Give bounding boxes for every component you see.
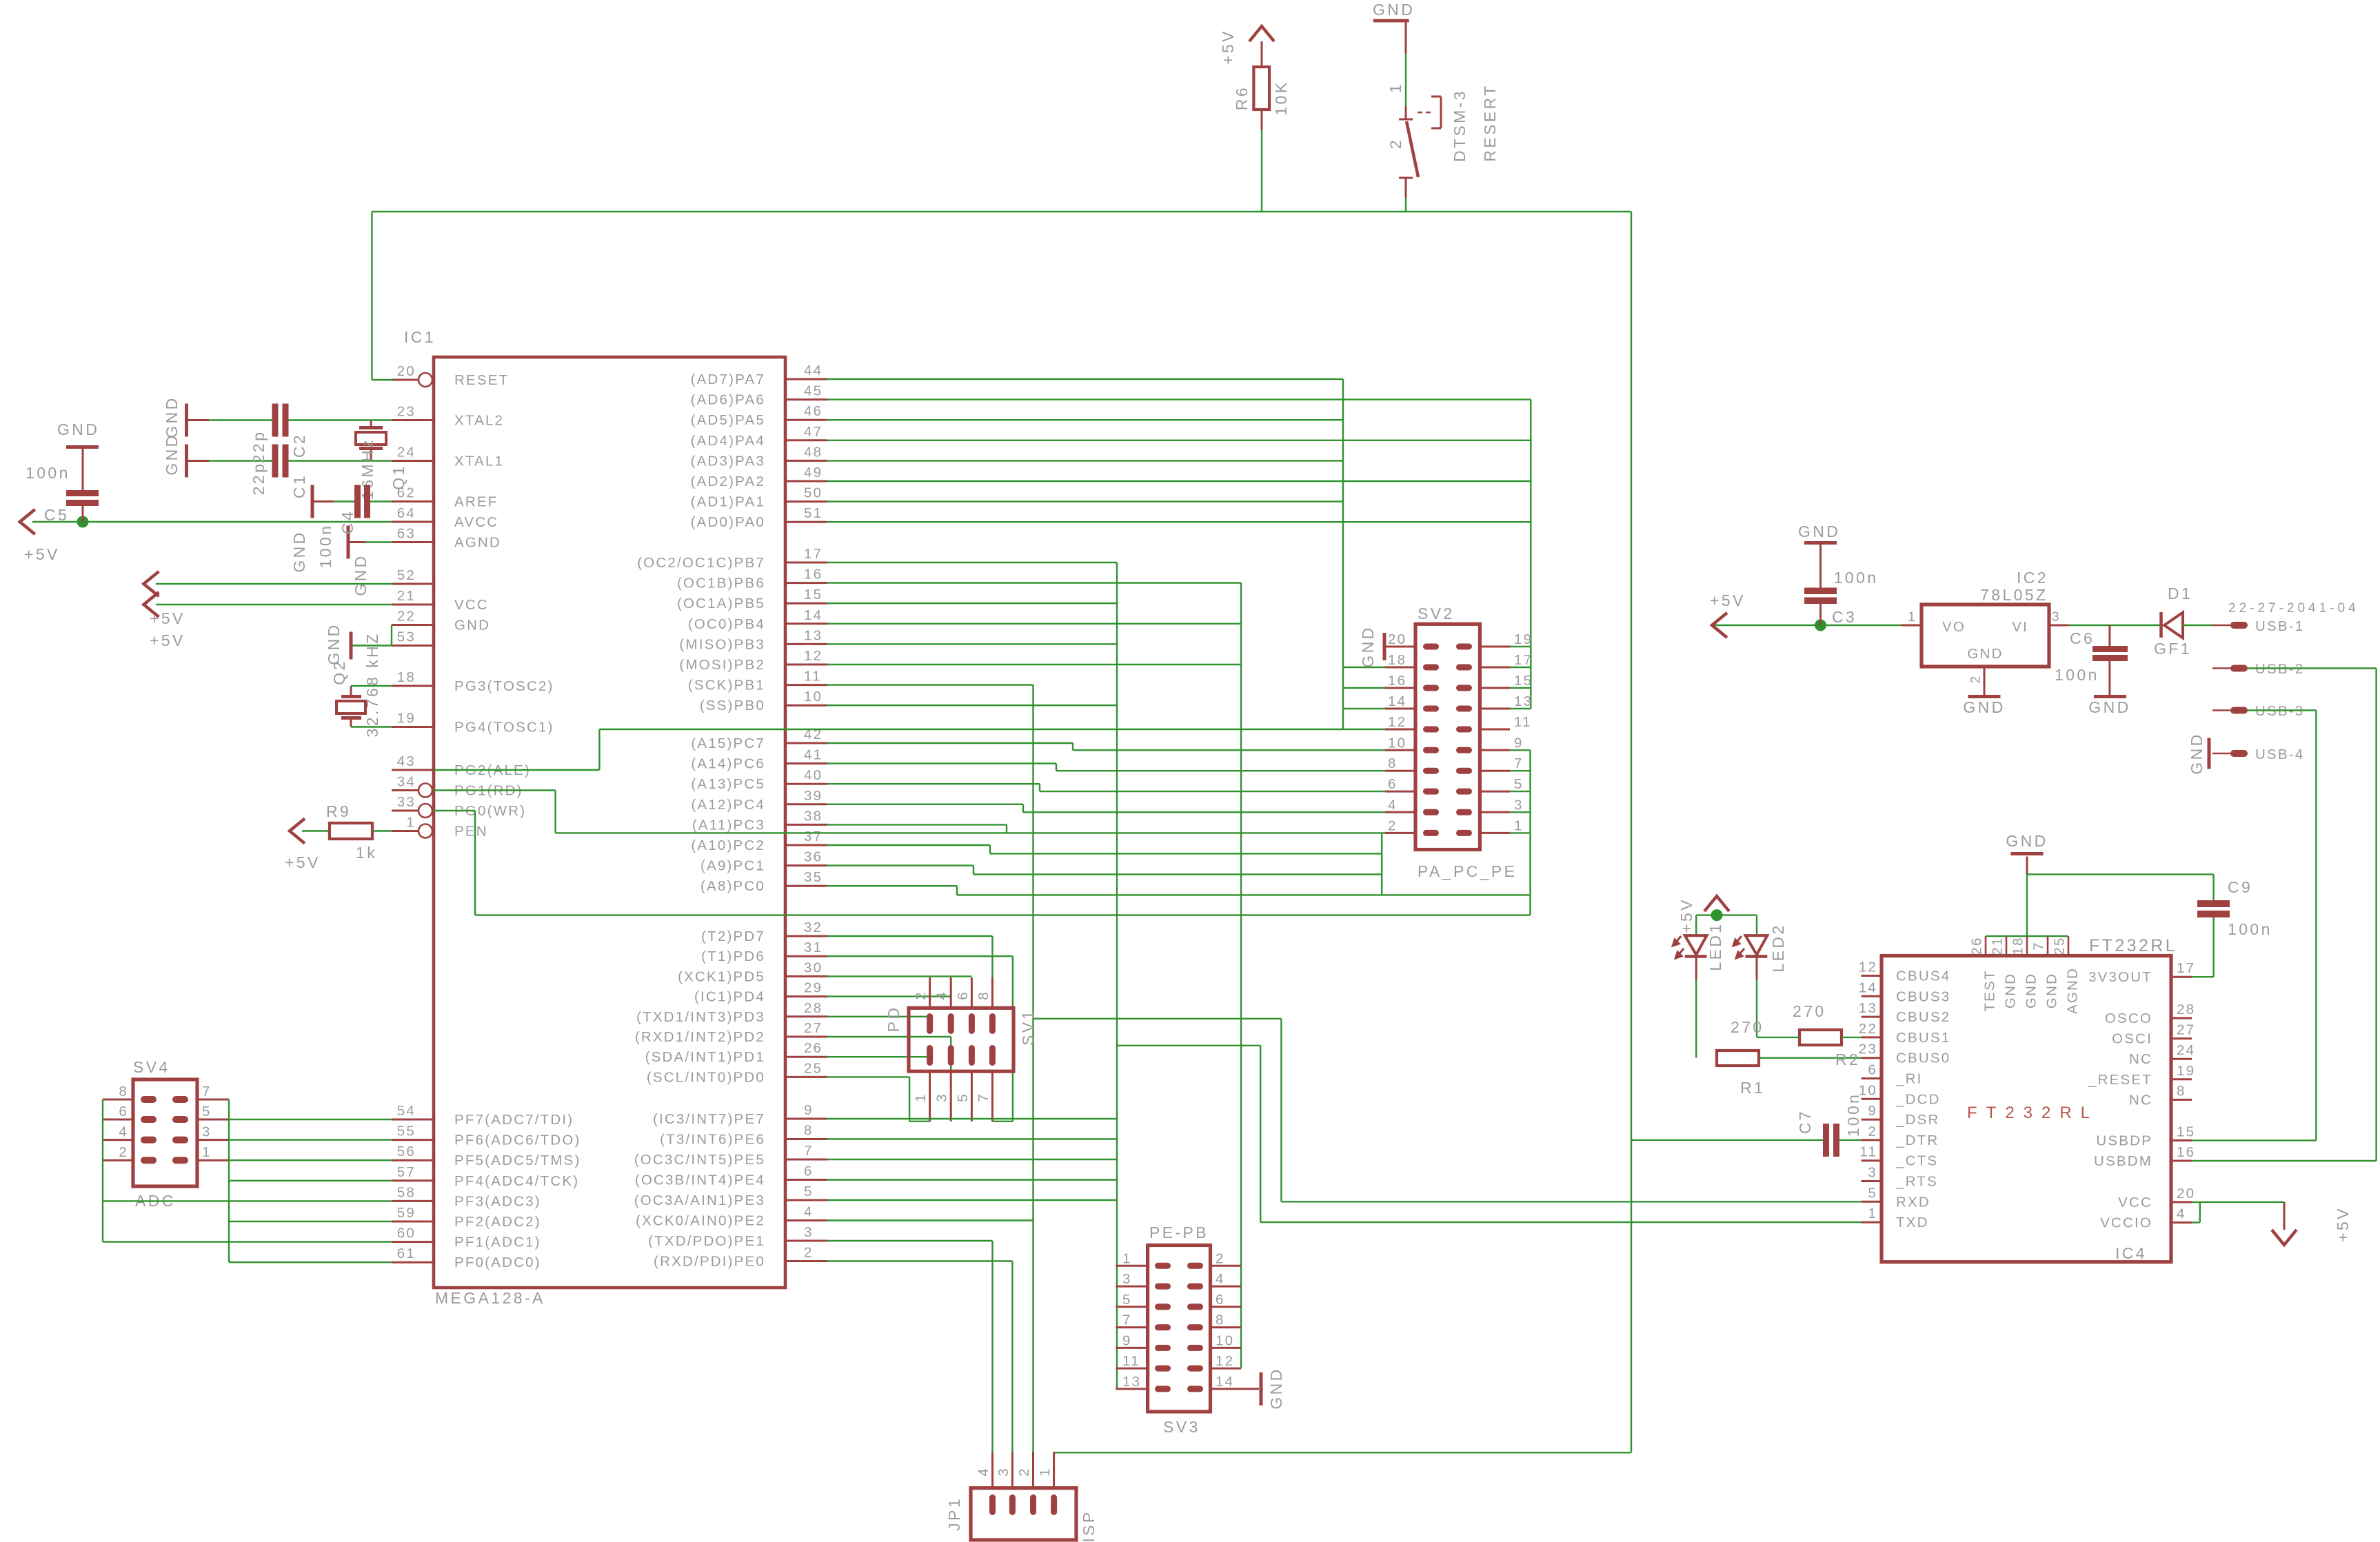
svg-text:(SDA/INT1)PD1: (SDA/INT1)PD1 <box>645 1049 765 1065</box>
svg-text:29: 29 <box>804 980 823 996</box>
svg-text:10K: 10K <box>1272 80 1290 115</box>
svg-text:IC2: IC2 <box>2017 569 2048 587</box>
svg-text:SV2: SV2 <box>1418 605 1455 622</box>
svg-text:R2: R2 <box>1835 1051 1860 1068</box>
svg-text:13: 13 <box>804 627 823 643</box>
svg-text:24: 24 <box>397 445 416 460</box>
svg-text:100n: 100n <box>316 524 334 569</box>
svg-text:4: 4 <box>804 1204 814 1220</box>
svg-text:(RXD/PDI)PE0: (RXD/PDI)PE0 <box>654 1254 765 1270</box>
svg-text:13: 13 <box>1514 693 1533 709</box>
svg-text:(AD4)PA4: (AD4)PA4 <box>691 433 765 449</box>
svg-text:USB-4: USB-4 <box>2255 747 2304 762</box>
svg-text:(TXD1/INT3)PD3: (TXD1/INT3)PD3 <box>636 1009 765 1025</box>
svg-text:(OC2/OC1C)PB7: (OC2/OC1C)PB7 <box>637 555 765 571</box>
svg-text:IC1: IC1 <box>404 328 436 346</box>
svg-text:AGND: AGND <box>454 535 501 551</box>
svg-text:59: 59 <box>397 1205 416 1221</box>
svg-text:GND: GND <box>2024 973 2039 1008</box>
svg-text:NC: NC <box>2129 1051 2152 1067</box>
svg-text:+5V: +5V <box>1710 591 1746 609</box>
svg-text:22p: 22p <box>250 430 268 464</box>
svg-text:GND: GND <box>1359 625 1377 667</box>
svg-text:2: 2 <box>1216 1250 1225 1266</box>
svg-text:SV3: SV3 <box>1163 1418 1200 1436</box>
svg-text:5: 5 <box>202 1104 212 1119</box>
svg-text:22-27-2041-04: 22-27-2041-04 <box>2228 601 2359 616</box>
svg-text:C5: C5 <box>44 506 69 524</box>
svg-text:35: 35 <box>804 869 823 885</box>
svg-text:PA_PC_PE: PA_PC_PE <box>1418 862 1517 880</box>
svg-text:JP1: JP1 <box>945 1497 963 1531</box>
svg-text:12: 12 <box>1859 960 1877 975</box>
svg-text:GND: GND <box>163 396 181 438</box>
svg-text:C4: C4 <box>339 509 356 534</box>
svg-text:3: 3 <box>996 1467 1011 1477</box>
svg-text:6: 6 <box>119 1104 128 1119</box>
svg-text:3: 3 <box>1514 797 1524 813</box>
svg-text:4: 4 <box>934 991 950 1000</box>
svg-text:(SCL/INT0)PD0: (SCL/INT0)PD0 <box>647 1069 765 1085</box>
svg-text:26: 26 <box>1969 936 1985 955</box>
svg-text:15: 15 <box>1514 673 1533 689</box>
svg-text:PD: PD <box>885 1006 902 1033</box>
svg-text:USBDM: USBDM <box>2094 1153 2152 1169</box>
svg-text:100n: 100n <box>2228 920 2272 938</box>
svg-text:VCC: VCC <box>454 597 489 613</box>
svg-text:8: 8 <box>804 1123 814 1139</box>
svg-text:1: 1 <box>1514 818 1524 833</box>
svg-text:5: 5 <box>955 1093 971 1102</box>
svg-text:PF4(ADC4/TCK): PF4(ADC4/TCK) <box>454 1173 579 1189</box>
svg-text:GF1: GF1 <box>2154 640 2192 658</box>
svg-text:52: 52 <box>397 567 416 583</box>
svg-text:GND: GND <box>454 618 490 633</box>
svg-text:41: 41 <box>804 747 823 763</box>
svg-text:_DSR: _DSR <box>1895 1112 1939 1128</box>
svg-text:CBUS4: CBUS4 <box>1896 968 1950 984</box>
svg-text:CBUS2: CBUS2 <box>1896 1009 1950 1025</box>
svg-text:ISP: ISP <box>1080 1510 1098 1542</box>
svg-text:1: 1 <box>1386 82 1404 93</box>
svg-text:18: 18 <box>1388 652 1406 668</box>
svg-text:RESERT: RESERT <box>1481 83 1499 161</box>
svg-text:TXD: TXD <box>1896 1215 1929 1230</box>
svg-text:C6: C6 <box>2070 629 2095 647</box>
svg-text:28: 28 <box>2177 1002 2195 1017</box>
svg-text:(A9)PC1: (A9)PC1 <box>700 858 765 874</box>
svg-text:(TXD/PDO)PE1: (TXD/PDO)PE1 <box>648 1233 765 1249</box>
svg-text:VCC: VCC <box>2118 1195 2152 1210</box>
svg-text:5: 5 <box>1122 1292 1132 1308</box>
svg-text:(OC3B/INT4)PE4: (OC3B/INT4)PE4 <box>635 1173 765 1188</box>
svg-text:C2: C2 <box>290 433 308 458</box>
svg-text:7: 7 <box>976 1093 991 1102</box>
svg-text:9: 9 <box>1514 735 1524 751</box>
svg-text:25: 25 <box>804 1060 823 1076</box>
svg-text:53: 53 <box>397 629 416 645</box>
svg-text:C9: C9 <box>2228 878 2252 896</box>
svg-text:Q2: Q2 <box>330 659 348 684</box>
svg-text:CBUS0: CBUS0 <box>1896 1051 1950 1066</box>
svg-text:2: 2 <box>1969 675 1984 684</box>
svg-text:(XCK1)PD5: (XCK1)PD5 <box>678 968 765 984</box>
svg-text:20: 20 <box>2177 1186 2195 1201</box>
svg-text:1: 1 <box>406 815 416 831</box>
svg-text:(A15)PC7: (A15)PC7 <box>691 736 765 751</box>
svg-text:RESET: RESET <box>454 372 509 388</box>
svg-text:61: 61 <box>397 1246 416 1261</box>
svg-text:1: 1 <box>1908 610 1917 625</box>
svg-text:4: 4 <box>976 1467 991 1477</box>
svg-text:GND: GND <box>2003 973 2019 1008</box>
svg-text:(OC1B)PB6: (OC1B)PB6 <box>677 576 765 591</box>
svg-text:1: 1 <box>1037 1467 1053 1477</box>
svg-text:33: 33 <box>397 794 416 810</box>
svg-text:16: 16 <box>804 567 823 582</box>
svg-text:PF6(ADC6/TDO): PF6(ADC6/TDO) <box>454 1133 581 1148</box>
svg-text:10: 10 <box>804 689 823 704</box>
svg-text:VO: VO <box>1942 619 1966 635</box>
svg-text:60: 60 <box>397 1226 416 1241</box>
svg-text:14: 14 <box>804 607 823 623</box>
svg-text:28: 28 <box>804 1000 823 1016</box>
svg-text:GND: GND <box>2044 973 2060 1008</box>
svg-text:8: 8 <box>1216 1312 1225 1328</box>
svg-text:8: 8 <box>976 991 991 1000</box>
svg-text:GND: GND <box>2088 698 2130 716</box>
svg-text:PG4(TOSC1): PG4(TOSC1) <box>454 720 554 736</box>
svg-text:Q1: Q1 <box>390 464 407 489</box>
svg-text:27: 27 <box>2177 1022 2195 1038</box>
svg-text:10: 10 <box>1388 735 1406 751</box>
svg-text:21: 21 <box>397 588 416 604</box>
svg-text:5: 5 <box>1514 776 1524 792</box>
svg-text:12: 12 <box>1388 714 1406 730</box>
svg-text:+5V: +5V <box>1219 29 1237 65</box>
svg-text:16: 16 <box>1388 673 1406 689</box>
svg-text:19: 19 <box>2177 1063 2195 1079</box>
svg-text:PF2(ADC2): PF2(ADC2) <box>454 1214 541 1230</box>
svg-text:(AD2)PA2: (AD2)PA2 <box>691 474 765 489</box>
svg-text:55: 55 <box>397 1124 416 1139</box>
svg-text:11: 11 <box>1514 714 1532 730</box>
svg-text:GND: GND <box>325 622 343 665</box>
svg-text:GND: GND <box>2006 832 2048 850</box>
svg-text:PF7(ADC7/TDI): PF7(ADC7/TDI) <box>454 1112 574 1128</box>
svg-text:GND: GND <box>1963 698 2005 716</box>
svg-text:_CTS: _CTS <box>1895 1153 1938 1169</box>
svg-text:6: 6 <box>955 991 971 1000</box>
svg-text:PF5(ADC5/TMS): PF5(ADC5/TMS) <box>454 1153 581 1168</box>
svg-text:GND: GND <box>1967 646 2003 662</box>
svg-text:PF1(ADC1): PF1(ADC1) <box>454 1235 541 1250</box>
svg-text:(OC3C/INT5)PE5: (OC3C/INT5)PE5 <box>634 1152 765 1168</box>
svg-text:57: 57 <box>397 1164 416 1180</box>
svg-text:2: 2 <box>1386 138 1404 149</box>
svg-text:6: 6 <box>1388 776 1398 792</box>
svg-text:2: 2 <box>913 991 929 1000</box>
svg-text:1k: 1k <box>356 844 377 862</box>
svg-text:+5V: +5V <box>1677 897 1695 933</box>
svg-text:FT232RL: FT232RL <box>2089 936 2177 955</box>
svg-text:+5V: +5V <box>150 609 185 627</box>
svg-text:12: 12 <box>1216 1353 1234 1369</box>
svg-text:NC: NC <box>2129 1092 2152 1108</box>
svg-text:SV1: SV1 <box>1019 1008 1037 1046</box>
svg-text:(AD7)PA7: (AD7)PA7 <box>691 372 765 387</box>
svg-text:18: 18 <box>397 669 416 685</box>
svg-text:2: 2 <box>1388 818 1398 833</box>
svg-text:15: 15 <box>804 587 823 602</box>
svg-text:56: 56 <box>397 1144 416 1159</box>
svg-text:13: 13 <box>1859 1000 1877 1016</box>
svg-text:LED2: LED2 <box>1769 923 1787 972</box>
svg-text:_RESET: _RESET <box>2088 1072 2152 1088</box>
svg-text:2: 2 <box>1868 1124 1877 1139</box>
svg-text:(AD0)PA0: (AD0)PA0 <box>691 514 765 530</box>
svg-text:1: 1 <box>913 1093 929 1102</box>
svg-text:7: 7 <box>1122 1312 1132 1328</box>
svg-text:C1: C1 <box>290 474 308 498</box>
svg-text:C3: C3 <box>1832 608 1857 626</box>
svg-text:16: 16 <box>2177 1144 2195 1160</box>
svg-text:FT232RL: FT232RL <box>1967 1104 2099 1122</box>
svg-text:7: 7 <box>2031 941 2047 951</box>
svg-text:(T3/INT6)PE6: (T3/INT6)PE6 <box>660 1132 765 1148</box>
svg-text:D1: D1 <box>2168 585 2192 602</box>
svg-text:(OC1A)PB5: (OC1A)PB5 <box>677 596 765 611</box>
svg-text:19: 19 <box>397 711 416 727</box>
svg-text:2: 2 <box>1016 1467 1032 1477</box>
svg-text:3V3OUT: 3V3OUT <box>2088 969 2152 985</box>
svg-text:(A11)PC3: (A11)PC3 <box>692 817 765 833</box>
svg-text:PF0(ADC0): PF0(ADC0) <box>454 1255 541 1270</box>
svg-text:(AD5)PA5: (AD5)PA5 <box>691 412 765 428</box>
svg-text:(AD1)PA1: (AD1)PA1 <box>691 494 765 510</box>
svg-text:4: 4 <box>2177 1206 2186 1222</box>
svg-text:6: 6 <box>1868 1062 1877 1078</box>
svg-text:21: 21 <box>1990 936 2006 955</box>
svg-text:RXD: RXD <box>1896 1194 1930 1210</box>
svg-text:12: 12 <box>804 648 823 664</box>
svg-text:+5V: +5V <box>24 545 60 563</box>
svg-text:OSCI: OSCI <box>2112 1031 2152 1047</box>
svg-text:+5V: +5V <box>2334 1206 2352 1242</box>
svg-text:20: 20 <box>397 363 416 379</box>
svg-text:PF3(ADC3): PF3(ADC3) <box>454 1193 541 1209</box>
svg-text:63: 63 <box>397 526 416 542</box>
svg-text:GND: GND <box>352 554 370 596</box>
svg-text:17: 17 <box>1514 652 1533 668</box>
svg-text:6: 6 <box>1216 1292 1225 1308</box>
svg-text:(SS)PB0: (SS)PB0 <box>700 698 765 713</box>
svg-text:45: 45 <box>804 383 823 399</box>
svg-text:23: 23 <box>397 404 416 420</box>
svg-text:(IC1)PD4: (IC1)PD4 <box>694 989 765 1005</box>
svg-text:32.768 kHZ: 32.768 kHZ <box>363 632 381 738</box>
svg-text:8: 8 <box>2177 1083 2186 1099</box>
svg-text:14: 14 <box>1388 693 1406 709</box>
svg-text:3: 3 <box>2052 610 2061 625</box>
svg-text:_RI: _RI <box>1895 1071 1923 1087</box>
svg-text:1: 1 <box>1868 1206 1877 1221</box>
svg-text:22p: 22p <box>250 462 268 496</box>
svg-text:4: 4 <box>1388 797 1398 813</box>
svg-text:(T1)PD6: (T1)PD6 <box>701 948 765 964</box>
svg-text:31: 31 <box>804 940 823 955</box>
svg-text:PG3(TOSC2): PG3(TOSC2) <box>454 678 554 694</box>
svg-text:TEST: TEST <box>1982 969 1998 1011</box>
svg-text:19: 19 <box>1514 631 1533 647</box>
svg-text:27: 27 <box>804 1020 823 1036</box>
svg-text:3: 3 <box>804 1224 814 1240</box>
svg-text:3: 3 <box>202 1124 212 1140</box>
svg-text:(A12)PC4: (A12)PC4 <box>691 797 765 813</box>
svg-text:26: 26 <box>804 1040 823 1056</box>
svg-text:9: 9 <box>1122 1332 1132 1348</box>
svg-text:13: 13 <box>1122 1374 1141 1390</box>
svg-text:270: 270 <box>1731 1018 1764 1036</box>
svg-text:100n: 100n <box>1834 569 1879 587</box>
svg-text:9: 9 <box>804 1102 814 1118</box>
svg-text:7: 7 <box>202 1084 212 1099</box>
svg-text:4: 4 <box>1216 1271 1225 1287</box>
svg-text:15: 15 <box>2177 1124 2195 1139</box>
svg-text:(OC0)PB4: (OC0)PB4 <box>688 616 765 632</box>
svg-text:GND: GND <box>1798 523 1840 540</box>
svg-text:18: 18 <box>2010 936 2026 955</box>
svg-text:GND: GND <box>2188 732 2206 774</box>
svg-text:37: 37 <box>804 829 823 844</box>
svg-text:3: 3 <box>1868 1165 1877 1181</box>
svg-text:R9: R9 <box>326 802 351 820</box>
svg-text:25: 25 <box>2052 936 2068 955</box>
svg-text:46: 46 <box>804 403 823 419</box>
svg-text:(SCK)PB1: (SCK)PB1 <box>688 678 765 693</box>
svg-text:43: 43 <box>397 753 416 769</box>
svg-text:20: 20 <box>1388 631 1406 647</box>
svg-text:AGND: AGND <box>2065 967 2081 1014</box>
svg-text:48: 48 <box>804 444 823 460</box>
svg-text:58: 58 <box>397 1184 416 1200</box>
svg-text:(A13)PC5: (A13)PC5 <box>691 776 765 792</box>
svg-text:14: 14 <box>1216 1374 1234 1390</box>
svg-text:10: 10 <box>1859 1082 1877 1098</box>
svg-text:2: 2 <box>119 1144 128 1160</box>
svg-text:R6: R6 <box>1233 85 1251 110</box>
svg-text:22: 22 <box>397 609 416 625</box>
svg-text:(A8)PC0: (A8)PC0 <box>700 878 765 894</box>
svg-text:11: 11 <box>1859 1144 1877 1160</box>
svg-text:5: 5 <box>804 1184 814 1199</box>
svg-text:(MISO)PB3: (MISO)PB3 <box>679 636 765 652</box>
svg-text:_DCD: _DCD <box>1895 1091 1941 1107</box>
svg-text:7: 7 <box>1514 755 1524 771</box>
svg-text:GND: GND <box>1373 1 1415 19</box>
svg-text:+5V: +5V <box>150 631 185 649</box>
svg-text:GND: GND <box>163 433 181 475</box>
svg-text:39: 39 <box>804 788 823 804</box>
svg-text:4: 4 <box>119 1124 128 1140</box>
svg-text:11: 11 <box>1122 1353 1140 1369</box>
svg-text:GND: GND <box>290 530 308 572</box>
svg-text:30: 30 <box>804 960 823 975</box>
svg-text:GND: GND <box>57 420 99 438</box>
svg-text:50: 50 <box>804 485 823 501</box>
svg-text:11: 11 <box>804 669 822 684</box>
svg-text:DTSM-3: DTSM-3 <box>1451 89 1469 162</box>
svg-text:XTAL2: XTAL2 <box>454 413 504 429</box>
svg-text:(A14)PC6: (A14)PC6 <box>691 756 765 772</box>
svg-text:6: 6 <box>804 1164 814 1179</box>
svg-text:22: 22 <box>1859 1021 1877 1037</box>
svg-text:PEN: PEN <box>454 824 488 840</box>
svg-text:MEGA128-A: MEGA128-A <box>435 1289 545 1307</box>
svg-text:44: 44 <box>804 363 823 378</box>
svg-text:CBUS3: CBUS3 <box>1896 988 1950 1004</box>
svg-text:36: 36 <box>804 849 823 865</box>
svg-text:VCCIO: VCCIO <box>2100 1215 2152 1231</box>
svg-text:OSCO: OSCO <box>2105 1011 2152 1026</box>
svg-text:CBUS1: CBUS1 <box>1896 1030 1950 1046</box>
svg-text:(RXD1/INT2)PD2: (RXD1/INT2)PD2 <box>635 1029 765 1045</box>
svg-text:GND: GND <box>1267 1367 1285 1409</box>
svg-text:100n: 100n <box>2055 666 2099 684</box>
svg-text:USB-1: USB-1 <box>2255 618 2304 634</box>
svg-text:47: 47 <box>804 424 823 440</box>
svg-text:R1: R1 <box>1740 1079 1765 1097</box>
svg-text:3: 3 <box>934 1093 950 1102</box>
svg-text:32: 32 <box>804 920 823 935</box>
svg-text:(A10)PC2: (A10)PC2 <box>691 838 765 853</box>
svg-text:270: 270 <box>1793 1002 1826 1020</box>
svg-text:USBDP: USBDP <box>2096 1133 2152 1148</box>
svg-text:7: 7 <box>804 1143 814 1159</box>
svg-text:14: 14 <box>1859 980 1877 995</box>
svg-text:XTAL1: XTAL1 <box>454 454 504 469</box>
svg-text:8: 8 <box>119 1084 128 1099</box>
svg-text:(OC3A/AIN1)PE3: (OC3A/AIN1)PE3 <box>634 1193 765 1208</box>
svg-text:(AD6)PA6: (AD6)PA6 <box>691 392 765 408</box>
svg-text:23: 23 <box>1859 1042 1877 1057</box>
svg-text:9: 9 <box>1868 1103 1877 1119</box>
svg-text:40: 40 <box>804 767 823 783</box>
svg-text:100n: 100n <box>1844 1093 1862 1137</box>
svg-text:1: 1 <box>202 1144 212 1160</box>
svg-text:_DTR: _DTR <box>1895 1133 1939 1148</box>
svg-text:10: 10 <box>1216 1332 1234 1348</box>
svg-text:(MOSI)PB2: (MOSI)PB2 <box>679 657 765 673</box>
svg-text:AREF: AREF <box>454 494 498 510</box>
svg-text:(AD3)PA3: (AD3)PA3 <box>691 453 765 469</box>
svg-text:17: 17 <box>2177 960 2195 976</box>
svg-text:49: 49 <box>804 465 823 480</box>
svg-text:LED1: LED1 <box>1706 922 1724 971</box>
svg-text:_RTS: _RTS <box>1895 1174 1938 1190</box>
svg-text:8: 8 <box>1388 755 1398 771</box>
svg-text:SV4: SV4 <box>133 1058 170 1076</box>
svg-text:17: 17 <box>804 546 823 562</box>
svg-text:3: 3 <box>1122 1271 1132 1287</box>
svg-text:+5V: +5V <box>285 853 321 871</box>
svg-text:78L05Z: 78L05Z <box>1980 586 2048 604</box>
svg-text:100n: 100n <box>26 464 70 482</box>
svg-text:AVCC: AVCC <box>454 514 498 530</box>
svg-text:64: 64 <box>397 505 416 521</box>
svg-text:54: 54 <box>397 1103 416 1119</box>
svg-text:24: 24 <box>2177 1042 2195 1058</box>
